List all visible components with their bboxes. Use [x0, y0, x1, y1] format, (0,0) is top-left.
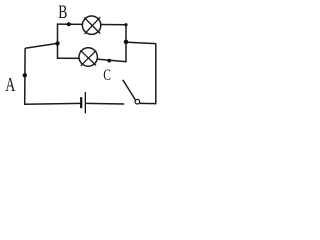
node dot on bottom branch right of lamp C	[107, 59, 111, 63]
wire: top branch (lamp B branch)	[57, 23, 127, 26]
lamp B	[82, 16, 100, 34]
wire: switch circle to bottom-right corner	[140, 102, 156, 104]
battery cell: short thick negative plate	[80, 97, 82, 108]
wire: bottom branch right segment sloping to right bar	[90, 59, 127, 62]
node dot: left bar junction with middle-left wire	[55, 41, 59, 45]
switch pivot circle	[135, 99, 140, 104]
svg-text:A: A	[5, 73, 16, 95]
node A dot on left edge	[23, 73, 27, 77]
svg-text:B: B	[58, 1, 67, 23]
switch blade (open)	[123, 80, 136, 101]
battery cell: long thin positive plate	[85, 92, 86, 113]
svg-text:C: C	[103, 66, 111, 83]
wire: middle-right horizontal from right junction bar to right edge	[126, 42, 156, 43]
wire: right edge vertical	[155, 43, 157, 104]
node dot on top branch left of lamp B	[67, 22, 71, 26]
wire: middle-left horizontal from left edge to left junction bar	[25, 43, 57, 48]
wire: bottom branch left segment (lamp C branch)	[57, 57, 90, 59]
lamp C	[79, 48, 97, 66]
node dot: right bar junction with middle-right wire	[124, 40, 129, 45]
wire: battery to switch	[85, 102, 124, 105]
wire: left junction bar vertical	[57, 24, 59, 59]
wire: right junction bar vertical	[125, 24, 127, 62]
node dot: top-right corner of branch B	[124, 23, 127, 26]
wire: left edge vertical	[24, 48, 26, 104]
wire: bottom-left horizontal to battery	[24, 102, 81, 105]
